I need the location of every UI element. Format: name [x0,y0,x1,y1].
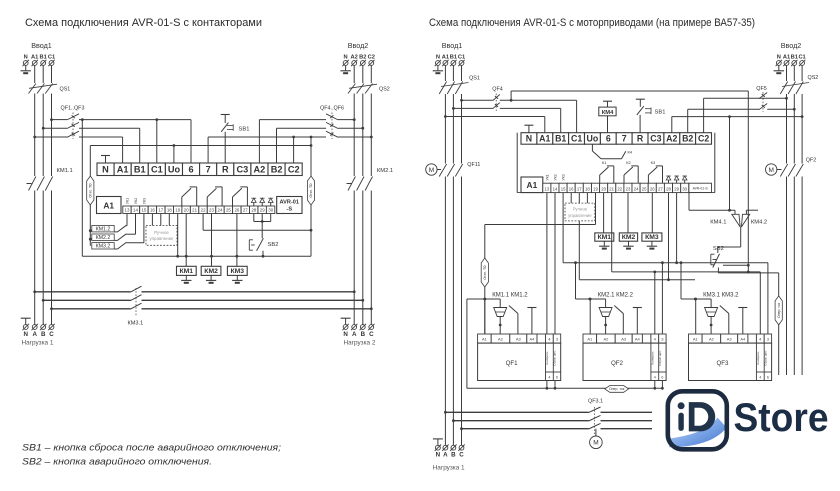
svg-text:A1: A1 [783,55,790,61]
svg-text:А1: А1 [482,336,488,341]
svg-text:A2: A2 [351,55,358,61]
svg-text:Store: Store [734,396,829,440]
svg-text:Опер. ток: Опер. ток [609,387,625,391]
svg-text:16: 16 [150,208,155,213]
svg-text:B2: B2 [682,134,693,144]
svg-text:A1: A1 [103,201,114,211]
svg-text:C2: C2 [368,55,375,61]
svg-text:КМ3: КМ3 [231,268,245,275]
svg-text:QF1: QF1 [506,360,519,367]
svg-text:Схема подключения AVR-01-S с м: Схема подключения AVR-01-S с моторпривод… [429,17,755,29]
svg-text:18: 18 [167,208,172,213]
svg-text:QS1: QS1 [469,76,480,82]
svg-text:А4: А4 [740,336,746,341]
svg-text:17: 17 [577,186,582,191]
svg-text:А1: А1 [693,336,699,341]
svg-text:SB1: SB1 [239,127,250,133]
svg-text:A: A [443,452,448,459]
svg-text:26: 26 [234,208,239,213]
svg-text:7: 7 [622,134,627,144]
svg-text:КМ1: КМ1 [598,234,612,241]
svg-text:B2: B2 [359,55,366,61]
svg-text:А2: А2 [709,336,715,341]
svg-text:4: 4 [759,375,761,379]
svg-text:управление: управление [149,236,174,241]
svg-text:SB2: SB2 [268,242,279,248]
svg-text:16: 16 [569,186,574,191]
svg-text:SB2: SB2 [713,246,724,252]
svg-text:КМ1.2: КМ1.2 [96,227,111,233]
svg-text:N: N [23,331,28,338]
svg-text:A1: A1 [527,180,538,190]
svg-text:К4: К4 [628,150,633,155]
svg-text:QS2: QS2 [808,75,819,81]
svg-text:28: 28 [251,208,256,213]
svg-text:КМ2: КМ2 [622,234,636,241]
svg-text:УК1: УК1 [545,174,549,180]
svg-text:C1: C1 [571,134,582,144]
svg-text:6: 6 [556,375,558,379]
svg-text:M: M [593,440,598,447]
svg-text:B: B [451,452,456,459]
svg-text:B1: B1 [134,165,146,175]
svg-text:R: R [637,134,644,144]
svg-text:25: 25 [642,186,647,191]
svg-text:А1: А1 [587,336,593,341]
svg-text:QS1: QS1 [60,87,71,93]
svg-text:15: 15 [561,186,566,191]
svg-text:КМ3.2: КМ3.2 [96,244,111,250]
svg-text:30: 30 [682,186,687,191]
svg-text:23: 23 [209,208,214,213]
svg-text:C1: C1 [798,55,805,61]
svg-text:QF4: QF4 [492,87,502,93]
svg-text:29: 29 [674,186,679,191]
svg-text:22: 22 [201,208,206,213]
svg-text:УК2: УК2 [134,198,138,204]
svg-text:КМ2.2: КМ2.2 [96,235,111,241]
svg-text:27: 27 [658,186,663,191]
svg-text:УК2: УК2 [553,174,557,180]
svg-text:A1: A1 [31,55,38,61]
svg-text:A: A [32,331,37,338]
svg-text:КМ4.1: КМ4.1 [710,220,726,226]
svg-text:А2: А2 [603,336,609,341]
svg-text:A2: A2 [254,165,266,175]
svg-text:Контроль: Контроль [756,351,760,364]
svg-text:24: 24 [218,208,223,213]
svg-text:КМ3.1 КМ3.2: КМ3.1 КМ3.2 [703,293,739,299]
svg-text:C1: C1 [151,165,163,175]
svg-text:А2: А2 [498,336,504,341]
svg-text:25: 25 [226,208,231,213]
svg-text:N: N [436,452,441,459]
svg-text:17: 17 [158,208,163,213]
svg-text:C3: C3 [650,134,661,144]
svg-text:C: C [369,331,374,338]
svg-text:A1: A1 [539,134,550,144]
svg-text:B1: B1 [791,55,798,61]
svg-text:6: 6 [661,375,663,379]
svg-text:B1: B1 [450,55,457,61]
svg-text:N: N [24,55,28,61]
svg-text:К1: К1 [602,160,607,165]
svg-text:N: N [344,55,348,61]
svg-text:УК1: УК1 [125,198,129,204]
svg-text:C3: C3 [237,165,249,175]
svg-text:Откл. ТО: Откл. ТО [483,265,487,279]
svg-text:N: N [436,55,440,61]
svg-text:23: 23 [626,186,631,191]
svg-text:29: 29 [260,208,265,213]
svg-text:18: 18 [585,186,590,191]
svg-text:14: 14 [553,186,558,191]
svg-text:Сброс цеп.: Сброс цеп. [764,350,768,366]
svg-text:N: N [526,134,532,144]
svg-text:Сброс цеп.: Сброс цеп. [658,350,662,366]
svg-text:AVR-01: AVR-01 [280,200,299,206]
svg-text:A2: A2 [666,134,677,144]
svg-text:6: 6 [189,165,194,175]
svg-text:QF4..QF6: QF4..QF6 [320,106,344,112]
svg-text:Ввод1: Ввод1 [31,41,52,50]
svg-text:22: 22 [617,186,622,191]
svg-text:N: N [777,55,781,61]
svg-text:C1: C1 [458,55,465,61]
svg-text:Сброс цеп.: Сброс цеп. [553,350,557,366]
svg-text:13: 13 [125,208,130,213]
svg-text:К3: К3 [651,160,656,165]
svg-text:N: N [102,165,109,175]
svg-text:КМ2.1 КМ2.2: КМ2.1 КМ2.2 [598,293,634,299]
svg-text:Uo: Uo [587,134,599,144]
svg-text:7: 7 [206,165,211,175]
svg-text:Ввод2: Ввод2 [781,41,802,50]
svg-text:AVR-01-S: AVR-01-S [693,186,709,190]
svg-text:QF3: QF3 [716,360,729,367]
svg-text:УК3: УК3 [142,198,146,204]
svg-text:УК3: УК3 [561,174,565,180]
svg-text:14: 14 [133,208,138,213]
svg-text:КМ1: КМ1 [180,268,194,275]
svg-text:А4: А4 [529,336,535,341]
svg-text:13: 13 [545,186,550,191]
svg-text:КМ4.2: КМ4.2 [751,220,767,226]
svg-text:КМ3: КМ3 [645,234,659,241]
svg-text:КМ1.1: КМ1.1 [57,168,73,174]
svg-text:4: 4 [548,375,550,379]
svg-text:Опер. ток: Опер. ток [777,302,781,318]
svg-text:M: M [429,167,434,174]
svg-text:19: 19 [593,186,598,191]
svg-text:Схема подключения AVR-01-S с к: Схема подключения AVR-01-S с контакторам… [25,17,262,29]
svg-text:SB1 – кнопка сброса после авар: SB1 – кнопка сброса после аварийного отк… [22,443,281,454]
svg-text:QF2: QF2 [611,360,624,367]
svg-text:QF3.1: QF3.1 [588,399,603,405]
svg-text:SB1: SB1 [655,110,666,116]
svg-text:Uo: Uo [168,165,181,175]
svg-text:20: 20 [601,186,606,191]
svg-text:6: 6 [606,134,611,144]
svg-text:Откл. ТО: Откл. ТО [89,183,93,197]
svg-text:А3: А3 [621,336,627,341]
svg-text:-S: -S [287,207,293,213]
svg-text:QF5: QF5 [756,86,766,92]
svg-text:M: M [768,167,773,174]
svg-text:15: 15 [141,208,146,213]
svg-text:Ввод1: Ввод1 [442,41,463,50]
svg-text:C1: C1 [48,55,55,61]
svg-text:SB2 – кнопка аварийного отключ: SB2 – кнопка аварийного отключения. [22,456,212,467]
svg-text:B: B [361,331,366,338]
svg-text:Ввод2: Ввод2 [348,41,369,50]
svg-text:Нагрузка 1: Нагрузка 1 [433,465,465,472]
svg-text:КМ3.1: КМ3.1 [128,321,144,327]
svg-text:C2: C2 [288,165,300,175]
svg-text:21: 21 [192,208,197,213]
svg-text:QF2: QF2 [806,158,816,164]
svg-text:Контроль: Контроль [650,351,654,364]
svg-text:Нагрузка 2: Нагрузка 2 [344,340,376,347]
svg-text:B: B [41,331,46,338]
svg-text:A1: A1 [117,165,129,175]
svg-text:А3: А3 [727,336,733,341]
svg-text:А4: А4 [635,336,641,341]
svg-text:QF1..QF3: QF1..QF3 [61,106,85,112]
svg-text:QS2: QS2 [379,87,390,93]
svg-text:Ручное: Ручное [154,230,169,235]
svg-text:A: A [352,331,357,338]
svg-text:24: 24 [634,186,639,191]
svg-text:30: 30 [268,208,273,213]
svg-text:A1: A1 [442,55,449,61]
svg-text:B1: B1 [555,134,566,144]
svg-text:КМ2.1: КМ2.1 [377,168,393,174]
svg-text:QF11: QF11 [467,162,480,168]
svg-text:управление: управление [568,213,592,218]
svg-text:C2: C2 [698,134,709,144]
svg-text:Контроль: Контроль [545,351,549,364]
svg-text:B2: B2 [271,165,283,175]
svg-text:28: 28 [666,186,671,191]
svg-text:6: 6 [767,375,769,379]
svg-text:Ручное: Ручное [573,207,588,212]
svg-text:27: 27 [243,208,248,213]
svg-text:21: 21 [609,186,614,191]
svg-text:КМ2: КМ2 [204,268,218,275]
svg-text:N: N [343,331,348,338]
svg-text:Нагрузка 1: Нагрузка 1 [22,340,54,347]
svg-text:26: 26 [650,186,655,191]
svg-text:C: C [49,331,54,338]
svg-text:Откл. ТО: Откл. ТО [309,183,313,197]
svg-text:B1: B1 [40,55,47,61]
svg-text:19: 19 [175,208,180,213]
svg-text:К2: К2 [626,160,631,165]
svg-text:C: C [459,452,464,459]
svg-text:КМ4: КМ4 [602,110,614,116]
svg-text:КМ1.1 КМ1.2: КМ1.1 КМ1.2 [492,293,528,299]
svg-text:R: R [222,165,229,175]
svg-text:А3: А3 [516,336,522,341]
svg-text:4: 4 [654,375,656,379]
svg-text:20: 20 [184,208,189,213]
